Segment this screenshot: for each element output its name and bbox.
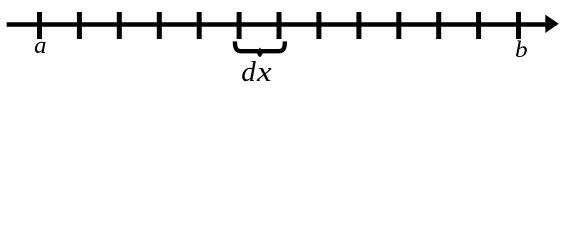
tick 4 xyxy=(157,12,162,39)
label dx: letter x xyxy=(257,58,272,87)
tick 8 xyxy=(316,12,321,39)
underbrace center cusp xyxy=(257,47,264,56)
tick 11 xyxy=(436,12,441,39)
tick 13 (b) xyxy=(516,12,521,39)
tick 10 xyxy=(396,12,401,39)
underbrace for dx interval xyxy=(235,41,285,51)
label a xyxy=(34,34,46,59)
tick 5 xyxy=(197,12,202,39)
tick 9 xyxy=(356,12,361,39)
tick 7 xyxy=(277,12,282,39)
label b xyxy=(515,38,528,61)
tick 2 xyxy=(77,12,82,39)
label dx: letter d xyxy=(241,58,256,87)
arrowhead xyxy=(545,15,559,33)
tick 6 xyxy=(237,12,242,39)
tick 3 xyxy=(117,12,122,39)
number line axis xyxy=(7,22,547,27)
tick 1 (a) xyxy=(37,12,42,39)
tick 12 xyxy=(476,12,481,39)
